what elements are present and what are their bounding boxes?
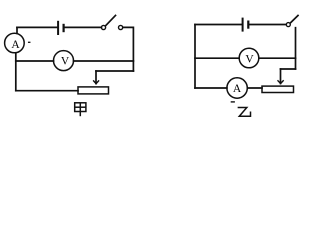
wire: slider arm horizontal (281, 68, 296, 70)
wire: left vertical of right circuit (194, 25, 196, 89)
small dash below ammeter (231, 101, 234, 103)
rheostat R (left circuit) body (78, 87, 109, 94)
label 甲 (drawn strokes) (75, 103, 86, 116)
svg-text:V: V (245, 53, 254, 65)
rheostat R (right circuit) body (262, 86, 294, 92)
switch pivot terminal (left circle) (101, 25, 105, 29)
wire: voltmeter branch right segment (74, 60, 134, 62)
ammeter A (left circuit) (5, 33, 25, 53)
ammeter A (right circuit) (227, 78, 247, 98)
wire: top wire to battery (195, 24, 242, 26)
switch pivot terminal circle (286, 23, 290, 27)
wire: left vertical from ammeter bottom to bottom-left corner (15, 53, 17, 91)
wire: battery to switch (249, 24, 286, 26)
svg-text:A: A (233, 83, 242, 95)
rheostat slider arrowhead (278, 81, 283, 84)
wire: slider arm horizontal (96, 70, 133, 72)
wire: right vertical below switch (295, 28, 297, 69)
wire: slider arm vertical (95, 71, 97, 84)
wire: voltmeter branch right segment (259, 57, 296, 59)
switch blade (open) (291, 16, 298, 23)
battery cell: short plate (negative) (62, 25, 64, 31)
battery cell: long plate (positive) (242, 19, 244, 31)
wire: battery to switch (65, 26, 102, 28)
battery cell: short plate (negative) (247, 22, 249, 28)
switch blade (open) (106, 15, 116, 25)
switch contact terminal (right circle) (119, 25, 123, 29)
battery cell: long plate (positive) (57, 22, 59, 34)
wire: switch to top-right corner, down right side (123, 27, 134, 71)
svg-text:A: A (11, 39, 20, 51)
label 乙 (drawn strokes) (238, 108, 250, 117)
wire: slider arm vertical (280, 69, 282, 84)
wire: voltmeter branch left segment (195, 57, 239, 59)
wire: bottom wire rheostat-left to bottom-left corner (16, 90, 78, 92)
wire: voltmeter branch left segment (16, 60, 54, 62)
wire: ammeter branch left segment (bottom) (195, 87, 227, 89)
wire: top wire from corner to battery (17, 26, 57, 28)
rheostat slider arrowhead (94, 81, 99, 84)
voltmeter V (left circuit) (54, 51, 74, 71)
svg-text:V: V (61, 56, 70, 68)
voltmeter V (right circuit) (239, 48, 259, 68)
wire: ammeter top stub to top-left corner (16, 27, 18, 33)
tiny tick on ammeter right rim (29, 41, 30, 43)
wire: ammeter to rheostat left terminal (247, 87, 262, 89)
